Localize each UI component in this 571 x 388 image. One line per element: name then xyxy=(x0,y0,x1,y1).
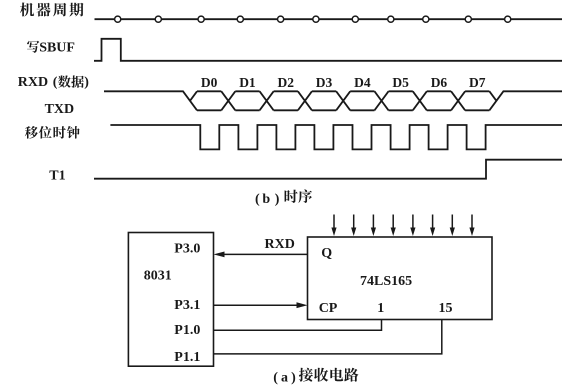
svg-text:D5: D5 xyxy=(392,75,409,90)
wire: Q -> P3.0 (RXD) with left arrowhead xyxy=(222,253,308,255)
svg-text:D2: D2 xyxy=(278,75,295,90)
svg-text:TXD: TXD xyxy=(45,102,75,117)
label: RXD(数据) xyxy=(18,75,89,90)
svg-text:D0: D0 xyxy=(201,75,218,90)
svg-text:15: 15 xyxy=(439,301,453,316)
svg-text:D6: D6 xyxy=(431,75,448,90)
svg-text:D7: D7 xyxy=(469,75,486,90)
svg-text:(: ( xyxy=(273,370,278,385)
wire: P1.0 -> pin 1 xyxy=(214,320,382,331)
svg-text:1: 1 xyxy=(377,301,384,316)
caption: (a)接收电路 xyxy=(273,368,358,386)
machine-cycle line xyxy=(95,18,563,20)
RXD/TXD data bus waveform xyxy=(104,91,562,110)
data bit labels D0-D7 xyxy=(201,75,486,90)
svg-text:CP: CP xyxy=(319,301,338,316)
machine-cycle tick circles xyxy=(115,16,511,22)
T1 waveform xyxy=(94,160,562,179)
wire: P1.1 -> pin 15 xyxy=(214,320,442,354)
write-SBUF pulse waveform xyxy=(94,39,562,61)
svg-text:SBUF: SBUF xyxy=(39,41,75,56)
svg-text:b: b xyxy=(262,192,270,207)
74LS165 chip box xyxy=(308,237,493,320)
label: 移位时钟 (shift clock) xyxy=(25,126,80,139)
shift clock waveform xyxy=(110,125,562,149)
svg-text:74LS165: 74LS165 xyxy=(360,274,412,289)
svg-text:): ) xyxy=(291,370,296,385)
wire: P3.1 -> CP with right arrowhead xyxy=(214,304,300,306)
svg-text:T1: T1 xyxy=(49,169,65,184)
svg-text:(: ( xyxy=(255,192,260,207)
svg-text:(: ( xyxy=(53,75,58,90)
svg-text:): ) xyxy=(84,75,89,90)
svg-text:Q: Q xyxy=(321,246,332,261)
svg-text:P3.0: P3.0 xyxy=(174,242,200,257)
caption: (b)时序 xyxy=(255,189,312,206)
label: 机器周期 (machine cycle) xyxy=(20,3,84,17)
svg-text:D4: D4 xyxy=(354,75,371,90)
svg-text:P3.1: P3.1 xyxy=(174,298,200,313)
parallel data input arrows into 74LS165 xyxy=(331,215,474,237)
svg-text:a: a xyxy=(281,370,288,385)
svg-text:RXD: RXD xyxy=(18,75,48,90)
svg-text:): ) xyxy=(275,192,280,207)
svg-text:D1: D1 xyxy=(239,75,256,90)
svg-text:8031: 8031 xyxy=(144,269,172,284)
8031 chip box xyxy=(128,233,213,367)
svg-text:P1.0: P1.0 xyxy=(174,323,200,338)
label: 写SBUF (write SBUF) xyxy=(27,41,75,56)
svg-text:D3: D3 xyxy=(316,75,333,90)
svg-text:RXD: RXD xyxy=(265,237,295,252)
svg-text:P1.1: P1.1 xyxy=(174,350,200,365)
